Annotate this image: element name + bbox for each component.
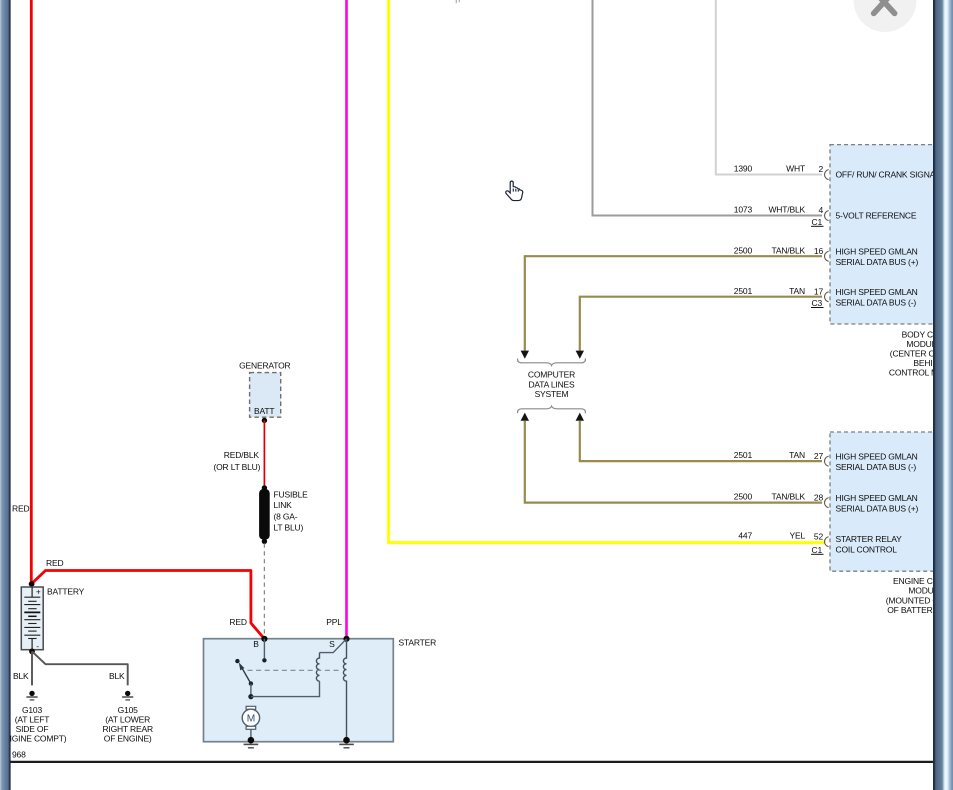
wire PPL starter solenoid vertical	[345, 0, 348, 638]
top edge cut text mark	[456, 0, 459, 3]
label RED/BLK (OR LT BLU)	[213, 450, 260, 472]
wire switch to motor junction	[250, 684, 252, 697]
arrow up circuit 2500 ECM	[521, 413, 529, 421]
svg-text:(8 GA-: (8 GA-	[274, 511, 298, 521]
battery	[21, 587, 43, 651]
svg-text:4: 4	[818, 205, 823, 215]
label circuit 1073 WHT/BLK pin 4	[734, 205, 824, 216]
svg-text:OFF/ RUN/ CRANK SIGNAL: OFF/ RUN/ CRANK SIGNAL	[836, 170, 941, 180]
node switch contact	[235, 659, 239, 663]
label connector C1 BCM	[811, 217, 824, 227]
label fusible link	[274, 489, 309, 532]
left scrollbar strip	[0, 0, 11, 790]
svg-text:C3: C3	[812, 298, 823, 308]
label circuit 2500 TAN/BLK pin 28	[734, 492, 824, 503]
label body control module location	[889, 329, 953, 377]
brace lower computer data lines	[518, 406, 586, 413]
node switch lower contact	[249, 681, 253, 685]
generator G1 box	[250, 373, 281, 418]
node battery negative	[29, 649, 35, 655]
label circuit 447 YEL pin 52	[738, 531, 823, 542]
svg-text:SIDE OF: SIDE OF	[16, 724, 49, 734]
svg-text:WHT: WHT	[786, 164, 805, 174]
svg-text:2501: 2501	[734, 286, 753, 296]
ground G105	[122, 691, 133, 700]
svg-text:PPL: PPL	[326, 617, 342, 627]
wire RED battery to starter	[31, 571, 264, 639]
svg-text:968: 968	[12, 750, 26, 760]
svg-text:2: 2	[818, 164, 823, 174]
label G105 location	[102, 705, 153, 744]
node motor junction	[248, 694, 253, 699]
svg-text:TAN/BLK: TAN/BLK	[771, 492, 805, 502]
label computer data lines system	[528, 370, 575, 399]
label connector C3 BCM	[811, 298, 824, 308]
wire starter B lead	[263, 639, 265, 658]
right scrollbar strip	[933, 0, 953, 790]
svg-text:B: B	[253, 639, 259, 649]
label circuit 2501 TAN pin 17	[734, 286, 824, 297]
node motor ground	[248, 737, 255, 744]
svg-text:LT BLU): LT BLU)	[274, 522, 304, 532]
svg-text:DATA LINES: DATA LINES	[528, 379, 575, 389]
svg-text:RED: RED	[229, 617, 246, 627]
label engine control module location	[886, 576, 953, 615]
svg-text:GENERATOR: GENERATOR	[239, 361, 290, 371]
svg-text:COIL CONTROL: COIL CONTROL	[836, 545, 898, 555]
wire TAN circuit 2501 to ECM pin 27	[580, 421, 822, 462]
node starter B terminal	[261, 636, 267, 642]
svg-text:TAN: TAN	[789, 450, 805, 460]
pin 27 connector arc	[825, 456, 829, 466]
wire RED battery feed vertical	[30, 0, 33, 584]
node fusible link bottom	[262, 539, 267, 544]
svg-text:COMPUTER: COMPUTER	[528, 370, 575, 380]
svg-text:SERIAL DATA BUS (+): SERIAL DATA BUS (+)	[836, 257, 919, 267]
svg-text:1073: 1073	[734, 205, 753, 215]
node generator BATT terminal	[262, 418, 267, 423]
label connector C1 ECM	[811, 545, 824, 555]
label BCM pin functions	[836, 170, 941, 308]
bottom rule	[11, 761, 935, 763]
wire RED/BLK generator to fusible link	[263, 420, 265, 488]
svg-text:S: S	[329, 639, 335, 649]
node battery positive junction	[29, 581, 35, 587]
label ECM pin functions	[836, 452, 919, 555]
pin 52 connector arc	[825, 537, 829, 547]
fusible link F1 (8 GA LT BLU)	[259, 489, 270, 540]
svg-text:447: 447	[738, 531, 752, 541]
svg-text:16: 16	[814, 246, 824, 256]
wire WHT circuit 1390	[716, 0, 822, 175]
svg-text:BATTERY: BATTERY	[47, 587, 85, 597]
svg-text:OF BATTERY): OF BATTERY)	[887, 605, 941, 615]
svg-text:SERIAL DATA BUS (-): SERIAL DATA BUS (-)	[836, 462, 917, 472]
svg-text:SERIAL DATA BUS (+): SERIAL DATA BUS (+)	[836, 504, 919, 514]
coil pull-in winding	[316, 653, 319, 682]
svg-text:SYSTEM: SYSTEM	[535, 389, 569, 399]
label circuit 2500 TAN/BLK pin 16	[734, 245, 824, 256]
pin 2 connector arc	[825, 170, 829, 180]
pin 17 connector arc	[825, 292, 829, 302]
svg-text:WHT/BLK: WHT/BLK	[768, 205, 805, 215]
ground G103	[26, 691, 37, 700]
pin 16 connector arc	[825, 251, 829, 261]
ground symbol solenoid	[339, 744, 354, 747]
svg-text:(AT LEFT: (AT LEFT	[15, 715, 50, 725]
svg-text:RIGHT REAR: RIGHT REAR	[102, 724, 153, 734]
svg-text:HIGH SPEED GMLAN: HIGH SPEED GMLAN	[836, 493, 918, 503]
switch arm with arrow	[239, 662, 251, 683]
svg-text:OF ENGINE): OF ENGINE)	[104, 734, 152, 744]
arrow down circuit 2501	[576, 351, 584, 359]
wire BLK battery to G103	[31, 651, 33, 685]
dashed mechanical linkage	[248, 669, 343, 671]
svg-text:BLK: BLK	[109, 671, 125, 681]
wire BLK battery to G105	[32, 651, 128, 685]
pin 4 connector arc	[825, 211, 829, 221]
wire S to pull-in coil	[320, 639, 347, 653]
svg-text:M: M	[247, 714, 255, 725]
svg-text:G105: G105	[118, 705, 139, 715]
motor M starter	[242, 706, 259, 739]
svg-text:RED: RED	[46, 558, 63, 568]
svg-text:SERIAL DATA BUS (-): SERIAL DATA BUS (-)	[836, 298, 917, 308]
svg-text:2500: 2500	[734, 492, 753, 502]
node starter S terminal	[343, 636, 349, 642]
svg-text:5-VOLT REFERENCE: 5-VOLT REFERENCE	[836, 211, 917, 221]
svg-text:(OR LT BLU): (OR LT BLU)	[213, 462, 260, 472]
svg-text:2500: 2500	[734, 245, 753, 255]
svg-text:C1: C1	[812, 545, 823, 555]
ground symbol motor	[244, 744, 259, 747]
svg-text:HIGH SPEED GMLAN: HIGH SPEED GMLAN	[836, 452, 918, 462]
svg-text:STARTER: STARTER	[399, 638, 437, 648]
label circuit 2501 TAN pin 27	[734, 450, 824, 461]
svg-text:27: 27	[814, 451, 824, 461]
wire dashed fusible link to starter B	[263, 544, 265, 638]
label circuit 1390 WHT pin 2	[734, 164, 824, 175]
svg-text:TAN/BLK: TAN/BLK	[771, 245, 805, 255]
wire YEL circuit 447 starter relay coil control	[389, 0, 826, 543]
svg-text:RED: RED	[12, 503, 29, 513]
pin 28 connector arc	[825, 498, 829, 508]
svg-text:2501: 2501	[734, 450, 753, 460]
starter box	[204, 639, 394, 742]
wire TAN/BLK circuit 2500 to ECM pin 28	[525, 421, 822, 503]
wire junction to pull-in coil	[251, 681, 320, 696]
svg-text:G103: G103	[22, 705, 43, 715]
svg-text:STARTER RELAY: STARTER RELAY	[836, 534, 903, 544]
coil hold-in winding	[343, 639, 346, 740]
svg-text:52: 52	[814, 531, 824, 541]
svg-text:17: 17	[814, 286, 824, 296]
svg-text:HIGH SPEED GMLAN: HIGH SPEED GMLAN	[836, 287, 918, 297]
node fusible link top	[262, 485, 267, 490]
wire TAN circuit 2501 to BCM pin 17	[580, 297, 822, 351]
svg-text:28: 28	[814, 492, 824, 502]
svg-text:1390: 1390	[734, 164, 753, 174]
node solenoid ground	[343, 737, 350, 744]
svg-text:TAN: TAN	[789, 286, 805, 296]
svg-text:BLK: BLK	[13, 671, 29, 681]
wire WHT/BLK circuit 1073	[593, 0, 823, 216]
svg-text:C1: C1	[812, 217, 823, 227]
svg-text:RED/BLK: RED/BLK	[224, 450, 260, 460]
brace upper computer data lines	[518, 358, 586, 365]
svg-text:+: +	[36, 587, 41, 596]
label G103 location	[0, 705, 67, 744]
arrow up circuit 2501 ECM	[576, 413, 584, 421]
svg-text:YEL: YEL	[789, 531, 805, 541]
node B lead end	[262, 658, 266, 662]
svg-text:HIGH SPEED GMLAN: HIGH SPEED GMLAN	[836, 247, 918, 257]
wire TAN/BLK circuit 2500 to BCM pin 16	[525, 256, 822, 351]
arrow down circuit 2500	[521, 351, 529, 359]
cursor hand pointer	[506, 181, 523, 200]
svg-text:(AT LOWER: (AT LOWER	[105, 715, 150, 725]
svg-text:LINK: LINK	[274, 500, 293, 510]
close button	[854, 0, 917, 32]
ECM connector box	[830, 432, 942, 571]
svg-text:FUSIBLE: FUSIBLE	[274, 489, 309, 499]
BCM connector box	[830, 145, 942, 324]
svg-text:BATT: BATT	[254, 406, 274, 416]
